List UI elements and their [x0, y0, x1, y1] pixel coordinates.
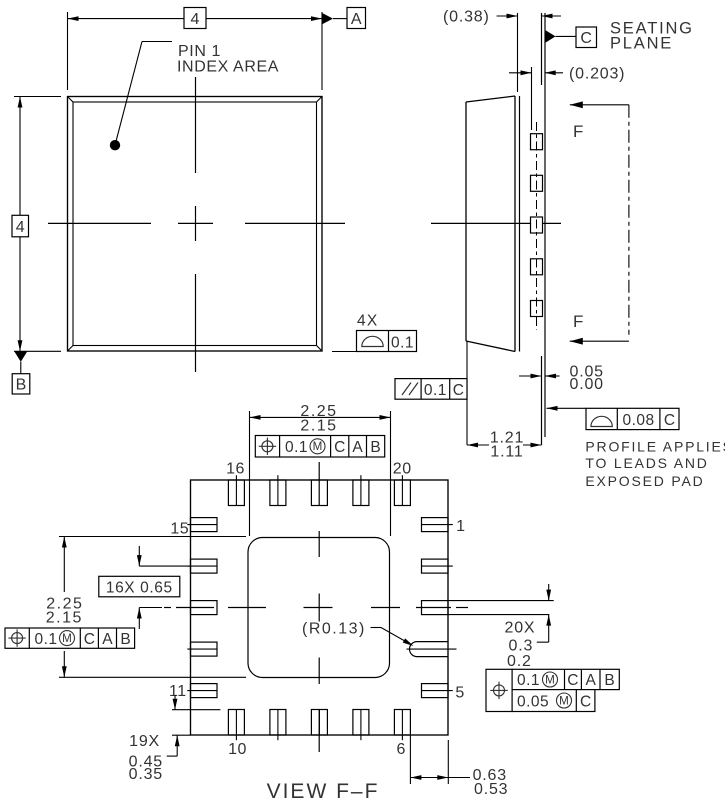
svg-text:20: 20 [393, 461, 412, 478]
svg-text:PROFILE APPLIES: PROFILE APPLIES [585, 439, 725, 455]
svg-text:0.05: 0.05 [517, 694, 549, 711]
svg-text:C: C [453, 382, 464, 399]
svg-text:2.15: 2.15 [46, 610, 83, 627]
svg-text:4: 4 [16, 219, 25, 236]
svg-text:A: A [351, 11, 362, 28]
svg-text:19X: 19X [129, 733, 160, 750]
svg-text:TO LEADS AND: TO LEADS AND [585, 455, 708, 471]
svg-text:M: M [559, 694, 569, 707]
svg-text:C: C [580, 30, 592, 47]
svg-text:1.11: 1.11 [490, 444, 523, 461]
svg-text:16: 16 [226, 461, 245, 478]
svg-text:B: B [370, 439, 380, 456]
svg-text:0.53: 0.53 [474, 781, 508, 798]
svg-text:PIN 1: PIN 1 [178, 43, 221, 60]
svg-text:0.1: 0.1 [35, 631, 58, 648]
svg-text:0.00: 0.00 [570, 376, 604, 393]
svg-text:(R0.13): (R0.13) [302, 621, 366, 638]
svg-text:M: M [545, 673, 555, 686]
svg-text:(0.203): (0.203) [569, 66, 625, 83]
svg-text:(0.38): (0.38) [443, 9, 490, 26]
svg-text:10: 10 [228, 741, 247, 758]
svg-text:0.3: 0.3 [509, 638, 534, 655]
svg-text:0.1: 0.1 [391, 335, 414, 352]
svg-text:1: 1 [456, 518, 465, 535]
svg-text:C: C [664, 412, 675, 429]
svg-text:C: C [84, 631, 95, 648]
svg-text:A: A [586, 672, 597, 689]
svg-text:0.08: 0.08 [623, 412, 655, 429]
svg-text:0.1: 0.1 [424, 382, 447, 399]
svg-text:4X: 4X [357, 313, 378, 330]
svg-text:0.1: 0.1 [517, 672, 540, 689]
svg-text:M: M [313, 440, 323, 453]
svg-text:B: B [16, 377, 27, 394]
svg-text:20X: 20X [505, 620, 536, 637]
svg-text:B: B [604, 672, 614, 689]
svg-text:6: 6 [397, 741, 406, 758]
svg-text:M: M [62, 632, 72, 645]
svg-text:A: A [352, 439, 363, 456]
svg-text:B: B [120, 631, 130, 648]
svg-text:16X 0.65: 16X 0.65 [106, 579, 173, 596]
svg-text:0.2: 0.2 [507, 653, 532, 670]
svg-text:VIEW F–F: VIEW F–F [267, 780, 380, 803]
svg-text:0.35: 0.35 [129, 766, 163, 783]
svg-text:F: F [573, 312, 583, 331]
svg-text:4: 4 [191, 11, 200, 28]
svg-text:INDEX AREA: INDEX AREA [177, 59, 279, 76]
svg-text:5: 5 [455, 685, 464, 702]
svg-text:PLANE: PLANE [610, 35, 673, 53]
svg-text:15: 15 [170, 521, 189, 538]
svg-text:C: C [567, 672, 578, 689]
svg-text:2.15: 2.15 [300, 418, 337, 435]
svg-text:F: F [573, 122, 583, 141]
svg-text:EXPOSED PAD: EXPOSED PAD [585, 473, 704, 489]
svg-text:0.1: 0.1 [285, 439, 308, 456]
svg-text:11: 11 [169, 683, 187, 700]
svg-text:C: C [334, 439, 345, 456]
svg-text:A: A [102, 631, 113, 648]
svg-text:C: C [580, 694, 591, 711]
